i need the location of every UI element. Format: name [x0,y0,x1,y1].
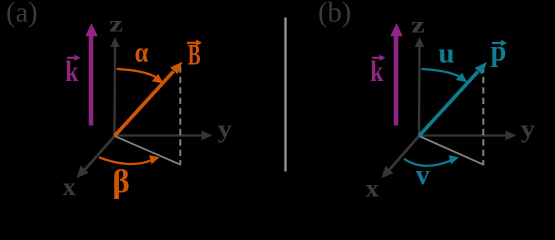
svg-text:p: p [491,35,507,68]
svg-text:(b): (b) [318,0,351,29]
angle arc u (panel b) [421,69,467,82]
svg-text:v: v [416,159,431,191]
z axis (panel a) [110,37,120,136]
vector k (panel b, purple arrow) [390,23,403,126]
svg-text:x: x [366,174,379,202]
vector B (panel a, orange) [115,62,183,136]
divider line between panels [284,18,286,172]
label k-vector (panel a) [65,54,80,87]
y axis (panel b) [419,131,517,141]
projection line of p onto xy-plane (panel b) [419,136,484,165]
x axis (panel b) [381,136,419,178]
svg-text:y: y [218,115,233,143]
label p-vector (panel b) [491,35,508,68]
svg-text:z: z [109,10,123,36]
projection line of B onto xy-plane (panel a) [115,136,181,165]
svg-text:x: x [63,173,76,201]
svg-text:u: u [438,38,454,70]
svg-text:(a): (a) [6,0,38,29]
dashed drop line from p tip (panel b) [482,67,484,165]
y axis (panel a) [115,131,213,141]
angle arc alpha (panel a) [117,69,164,84]
angle arc beta (panel a) [99,155,160,164]
z axis (panel b) [415,37,425,136]
svg-text:y: y [521,115,536,143]
vector k (panel a, purple arrow) [85,23,98,126]
angle arc v (panel b) [404,155,459,166]
vector p (panel b, teal) [419,62,487,136]
label k-vector (panel b) [370,54,385,87]
label B-vector (panel a) [187,39,202,71]
dashed drop line from B tip (panel a) [179,67,181,165]
x axis (panel a) [77,136,115,178]
svg-text:α: α [135,35,149,67]
svg-text:β: β [112,164,129,200]
svg-text:z: z [411,11,425,37]
